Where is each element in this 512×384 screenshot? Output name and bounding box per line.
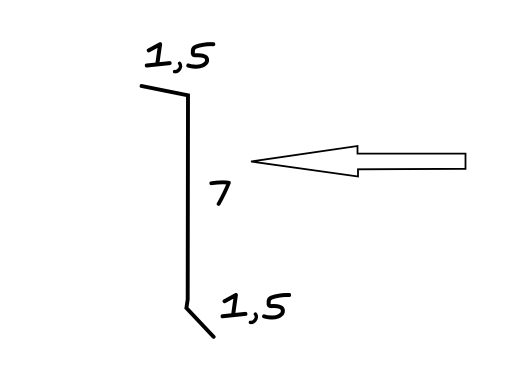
dimension label bottom: 1,5 [223,295,290,322]
dimension label middle: 7 [211,182,229,203]
arrow (outlined, pointing left) [251,146,466,177]
profile line (sheet-metal Z-profile sketch) [142,86,214,337]
dimension label top: 1,5 [147,44,214,71]
